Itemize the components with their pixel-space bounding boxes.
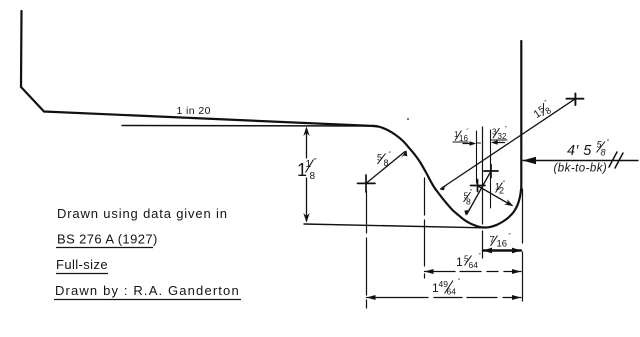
svg-text:8: 8 bbox=[310, 171, 316, 182]
svg-text:(bk-to-bk): (bk-to-bk) bbox=[554, 163, 608, 175]
svg-text:″: ″ bbox=[470, 190, 473, 196]
svg-text:8: 8 bbox=[384, 158, 389, 168]
svg-text:2: 2 bbox=[499, 186, 504, 196]
svg-text:64: 64 bbox=[469, 260, 479, 270]
svg-text:″: ″ bbox=[509, 234, 512, 240]
svg-text:64: 64 bbox=[447, 287, 457, 297]
svg-text:″: ″ bbox=[314, 158, 317, 165]
svg-text:″: ″ bbox=[479, 254, 482, 260]
svg-text:16: 16 bbox=[459, 134, 468, 143]
svg-text:Full-size: Full-size bbox=[56, 257, 108, 272]
svg-text:8: 8 bbox=[601, 148, 606, 158]
svg-text:″: ″ bbox=[503, 181, 506, 187]
svg-text:16: 16 bbox=[497, 239, 508, 250]
svg-text:″: ″ bbox=[458, 279, 461, 285]
svg-text:Drawn by : R.A. Ganderton: Drawn by : R.A. Ganderton bbox=[55, 283, 240, 298]
svg-text:8: 8 bbox=[466, 197, 471, 207]
svg-text:32: 32 bbox=[498, 132, 507, 141]
svg-text:″: ″ bbox=[607, 139, 610, 146]
svg-text:BS 276 A (1927): BS 276 A (1927) bbox=[57, 232, 158, 247]
svg-text:″: ″ bbox=[467, 129, 469, 135]
svg-text:″: ″ bbox=[389, 151, 392, 158]
svg-text:1: 1 bbox=[456, 255, 463, 269]
svg-text:″: ″ bbox=[505, 126, 507, 132]
svg-text:Drawn using data given in: Drawn using data given in bbox=[57, 206, 228, 221]
svg-text:4′ 5: 4′ 5 bbox=[567, 143, 592, 159]
svg-text:1 in 20: 1 in 20 bbox=[177, 105, 211, 117]
svg-text:″: ″ bbox=[544, 99, 550, 106]
